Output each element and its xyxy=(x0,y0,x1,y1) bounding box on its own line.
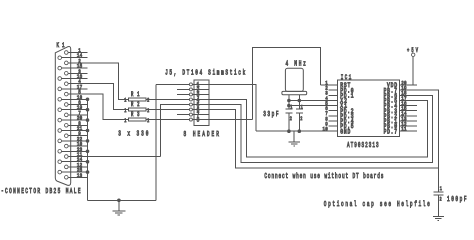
K1 pin 4 xyxy=(65,79,88,86)
K1 pin 10 xyxy=(65,141,88,148)
IC1 pin 19 (PB.7) xyxy=(384,85,418,95)
junction pin 23 to ground bus xyxy=(86,150,90,154)
wire IC1 RST loop around crystal xyxy=(252,47,320,119)
svg-text:1: 1 xyxy=(124,97,126,104)
IC1 pin 20 (VDD) xyxy=(387,80,417,90)
K1 pin 7 xyxy=(65,110,88,117)
junction ground symbol tap xyxy=(117,199,121,203)
J5 pin 4 xyxy=(189,96,209,104)
+5V supply symbol xyxy=(407,47,418,57)
resistor R2 330 ohm xyxy=(124,101,149,114)
ground bus wire (DB25 pins 18-25) xyxy=(87,99,89,200)
K1 pin 8 xyxy=(65,120,88,127)
IC1 pin 5 (X1) xyxy=(325,100,347,110)
wire DB25 pin11 to header pin5 (riser) xyxy=(160,105,189,157)
header J5 body xyxy=(194,80,209,125)
svg-text:2: 2 xyxy=(300,115,302,122)
svg-text:Connect when use without DT bo: Connect when use without DT boards xyxy=(264,172,383,180)
svg-text:2: 2 xyxy=(440,196,442,203)
wire crystal right lead xyxy=(298,95,300,109)
K1 pin 21 xyxy=(58,125,88,132)
svg-text:2: 2 xyxy=(147,107,149,114)
svg-text:R2: R2 xyxy=(131,101,139,108)
svg-text:AT90S2313: AT90S2313 xyxy=(347,141,379,149)
svg-text:PD.7: PD.7 xyxy=(384,128,397,136)
wire header pin8 to RST loop xyxy=(209,119,252,121)
IC1 pin 11 (PD.7) xyxy=(384,126,418,136)
K1 pin 16 xyxy=(58,73,88,80)
IC1 pin 10 (GND) xyxy=(323,126,351,136)
svg-text:Optional cap see Helpfile: Optional cap see Helpfile xyxy=(324,200,430,208)
J5 pin 5 xyxy=(189,101,209,109)
svg-text:GND: GND xyxy=(340,128,351,136)
IC1 pin 6 (PD.2) xyxy=(325,106,353,116)
K1 pin 19 xyxy=(58,105,88,112)
wire header pin5 to IC1 PB.6 (MISO) xyxy=(209,95,433,162)
svg-text:-CONNECTOR DB25 MALE: -CONNECTOR DB25 MALE xyxy=(1,187,81,195)
K1 pin 25 xyxy=(58,167,88,174)
svg-text:4 MHz: 4 MHz xyxy=(286,60,307,68)
svg-text:8: 8 xyxy=(197,116,200,124)
wire R1 to header pin4 xyxy=(146,99,189,101)
svg-text:R3: R3 xyxy=(131,111,139,118)
junction C2 / ground rail xyxy=(298,129,302,133)
K1 pin 24 xyxy=(58,157,88,164)
wire header pin1 to ground (riser) xyxy=(155,84,157,200)
K1 pin 12 xyxy=(65,162,88,169)
junction crystal left lead / X2 wire xyxy=(287,99,291,103)
K1 pin 17 xyxy=(58,84,88,91)
K1 pin 22 xyxy=(58,136,88,143)
K1 pin 15 xyxy=(58,63,88,70)
wire R3 to header pin8 xyxy=(146,119,189,121)
junction pin 18 to ground bus xyxy=(86,98,90,102)
resistor R1 330 ohm xyxy=(124,91,149,104)
IC1 pin 12 (PB.0) xyxy=(384,121,418,131)
wire crystal to IC1 X1 xyxy=(289,105,338,107)
IC1 pin 9 (PD.5) xyxy=(325,121,353,131)
capacitor C1 33pF xyxy=(285,104,292,123)
IC1 pin 13 (PB.1) xyxy=(384,116,418,126)
svg-text:1: 1 xyxy=(440,185,442,192)
wire RST stub to loop xyxy=(321,84,338,86)
J5 pin 8 xyxy=(189,116,209,124)
IC1 pin 15 (PB.3) xyxy=(384,106,418,116)
wire C1 to ground rail xyxy=(288,113,290,131)
K1 pin 18 xyxy=(58,94,88,101)
IC1 pin 8 (PD.4) xyxy=(325,116,354,126)
K1 pin 1 xyxy=(65,47,88,54)
svg-text:13: 13 xyxy=(77,172,82,179)
IC1 pin 18 (PB.6) xyxy=(384,90,418,100)
wire crystal left lead xyxy=(288,95,290,109)
svg-text:R1: R1 xyxy=(131,91,139,98)
K1 pin 11 xyxy=(65,151,88,158)
wire header pin4 to IC1 PB.5 (MOSI) xyxy=(209,99,428,157)
junction C1 / ground rail xyxy=(287,129,291,133)
svg-text:1: 1 xyxy=(301,104,303,111)
K1 pin 2 xyxy=(65,58,88,65)
junction pin 21 to ground bus xyxy=(86,129,90,133)
crystal X1 4MHz xyxy=(282,68,307,95)
junction crystal right lead / X2 wire xyxy=(298,99,302,103)
wire C3 to ground xyxy=(437,195,439,217)
wire crystal to IC1 X2 xyxy=(289,100,338,102)
ground symbol (left) xyxy=(112,200,125,215)
resistor R3 330 ohm xyxy=(124,111,149,124)
wire +5V to IC1 pin20 VDD xyxy=(412,57,414,86)
wire DB25 pin11 xyxy=(68,156,160,158)
J5 pin 2 xyxy=(177,86,209,94)
IC1 pin 2 (PD.0) xyxy=(325,85,353,95)
K1 pin 6 xyxy=(65,99,88,106)
svg-text:J5, DT104 SimmStick: J5, DT104 SimmStick xyxy=(165,68,245,76)
junction crystal left lead / X1 wire xyxy=(287,104,291,108)
J5 pin 1 xyxy=(189,81,209,89)
capacitor C2 33pF xyxy=(296,104,303,123)
wire DB25 pin5 to R3 xyxy=(68,94,128,120)
J5 pin 7 xyxy=(177,111,209,119)
wire header pin1 to ground rail xyxy=(209,84,256,131)
svg-text:1: 1 xyxy=(124,107,126,114)
capacitor C3 100pF xyxy=(433,185,443,203)
wire ground bus to header pin1 riser xyxy=(88,199,156,201)
K1 pin 5 xyxy=(65,89,88,96)
svg-text:2: 2 xyxy=(290,115,292,122)
svg-text:100pF: 100pF xyxy=(447,195,467,203)
IC1 pin 1 (RST) xyxy=(325,80,351,90)
wire riser to header pin1 xyxy=(156,83,189,85)
K1 pin 3 xyxy=(65,68,88,75)
wire header pin6 to IC1 PB.7 (SCK) xyxy=(209,90,438,168)
ground symbol (right) xyxy=(433,216,444,220)
junction pin 19 to ground bus xyxy=(86,108,90,112)
svg-text:2: 2 xyxy=(147,117,149,124)
wire DB25 pin4 to R2 xyxy=(68,84,128,110)
svg-text:1: 1 xyxy=(290,104,292,111)
K1 pin 13 xyxy=(65,172,88,179)
K1 pin 14 xyxy=(58,53,88,60)
svg-text:K1: K1 xyxy=(57,41,65,49)
junction pin 20 to ground bus xyxy=(86,118,90,122)
svg-text:10: 10 xyxy=(323,126,328,133)
wire PB.7 net to C3 xyxy=(437,168,439,192)
ground symbol (middle) xyxy=(289,131,300,146)
connector K1 DB25 shell xyxy=(55,47,70,186)
K1 pin 23 xyxy=(58,146,88,153)
svg-text:11: 11 xyxy=(401,126,406,133)
wire C2 to ground rail xyxy=(298,113,300,131)
J5 pin 3 xyxy=(177,91,209,99)
IC1 pin 7 (PD.3) xyxy=(325,111,353,121)
IC1 pin 17 (PB.5) xyxy=(384,95,418,105)
svg-text:2: 2 xyxy=(147,97,149,104)
IC1 pin 4 (X2) xyxy=(325,95,347,105)
wire R2 to header pin6 xyxy=(146,109,189,111)
wire DB25 pin2 to R1 xyxy=(68,63,128,100)
junction pin 22 to ground bus xyxy=(86,139,90,143)
wire ground rail to IC1 GND xyxy=(256,130,337,132)
J5 pin 6 xyxy=(189,106,209,114)
svg-text:33pF: 33pF xyxy=(263,110,279,118)
IC1 pin 3 (PD.1) xyxy=(325,90,354,100)
junction pin 24 to ground bus xyxy=(86,160,90,164)
svg-text:3 x 330: 3 x 330 xyxy=(118,130,149,138)
IC1 pin 14 (PB.2) xyxy=(384,111,418,121)
IC1 pin 16 (PB.4) xyxy=(384,100,418,110)
svg-text:1: 1 xyxy=(124,117,126,124)
svg-text:8 HEADER: 8 HEADER xyxy=(184,130,220,138)
K1 pin 20 xyxy=(58,115,88,122)
K1 pin 9 xyxy=(65,131,88,138)
IC IC1 AT90S2313 body xyxy=(338,80,400,136)
junction pin 25 to ground bus xyxy=(86,170,90,174)
